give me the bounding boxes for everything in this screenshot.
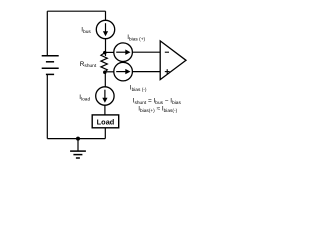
svg-text:Ibias (+): Ibias (+) bbox=[127, 34, 145, 42]
wire node A to Ibias+ source bbox=[105, 51, 114, 53]
wire Iload to Load box bbox=[104, 105, 106, 115]
wire Ibias- to op-amp noninverting input bbox=[132, 71, 160, 73]
resistor Rshunt bbox=[101, 53, 107, 72]
wire node B to Iload source bbox=[104, 72, 106, 87]
wire node B to Ibias- source bbox=[105, 71, 114, 73]
wire top to Ibus source bbox=[105, 11, 107, 20]
op-amp minus sign bbox=[165, 51, 169, 53]
svg-text:Load: Load bbox=[97, 118, 115, 127]
svg-text:Ishunt = Ibus − Ibias: Ishunt = Ibus − Ibias bbox=[133, 97, 182, 105]
node junction bottom bbox=[76, 137, 80, 141]
op-amp plus sign bbox=[165, 69, 170, 74]
wire Ibias+ to op-amp inverting input bbox=[132, 51, 160, 53]
wire left vertical lower bbox=[46, 74, 48, 138]
wire Load box to bottom wire bbox=[104, 128, 106, 139]
svg-text:Ibias (-): Ibias (-) bbox=[130, 85, 147, 93]
node B (bottom of shunt) bbox=[103, 70, 107, 74]
current source Ibias+ bbox=[114, 43, 133, 62]
current source Ibias- bbox=[114, 62, 133, 81]
svg-text:Iload: Iload bbox=[79, 94, 90, 102]
wire left vertical upper bbox=[46, 11, 48, 56]
svg-text:Ibias(+) ≈ Ibias(-): Ibias(+) ≈ Ibias(-) bbox=[138, 106, 177, 114]
ground bbox=[70, 151, 86, 158]
wire top horizontal bbox=[47, 10, 105, 12]
wire ground stub bbox=[77, 139, 79, 152]
load box bbox=[92, 115, 119, 128]
node A (top of shunt) bbox=[103, 51, 107, 55]
battery V1 bbox=[42, 56, 59, 75]
op-amp U1 bbox=[160, 41, 186, 80]
current source Iload bbox=[96, 87, 114, 105]
current source Ibus bbox=[96, 20, 114, 38]
svg-text:Ibus: Ibus bbox=[81, 27, 91, 35]
svg-text:Rshunt: Rshunt bbox=[80, 61, 97, 69]
wire bottom horizontal bbox=[47, 138, 105, 140]
wire Ibus to node A bbox=[105, 39, 107, 56]
